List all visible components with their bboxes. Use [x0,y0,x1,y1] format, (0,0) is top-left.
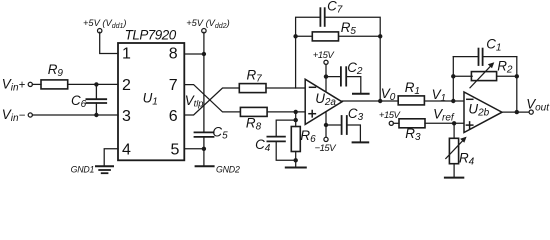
svg-text:6: 6 [169,108,178,125]
node pin5/C5 junction [202,147,206,151]
node R2 left [451,74,455,78]
R4 arrow [446,139,465,159]
terminal +15V (R3) [389,121,393,125]
capacitor C4 [267,136,285,138]
resistor R1 [398,96,424,105]
wire pin 6 crossing up to R7 [184,88,239,115]
wire U2a output to R1 [342,100,398,102]
svg-text:+15V: +15V [313,50,336,61]
wire R8 to U2a non-inverting input [267,111,305,113]
node pin8/Vdd2 junction [202,52,206,56]
IC U1 TLP7920 body [118,43,184,160]
wire noninv node down to R6 [295,112,297,127]
capacitor C7 [319,8,321,26]
resistor R2 (variable) [453,75,472,77]
capacitor C2 [326,76,341,78]
svg-text:GND2: GND2 [216,165,240,175]
terminal -15V (U2a) [324,137,328,141]
terminal +15V (U2a) [324,60,328,64]
node C6 top [94,82,98,86]
resistor R3 [399,119,425,128]
node R2 right [515,74,519,78]
node C3 tee [324,123,328,127]
ground GND2 [196,165,214,167]
capacitor C6 [95,84,97,99]
wire pin 8 [184,53,204,55]
capacitor C3 [326,124,342,126]
svg-text:+15V: +15V [379,110,402,121]
terminal Vin- [28,113,32,117]
node V0 [378,99,382,103]
resistor R5 [296,35,312,37]
ground C3 [353,141,369,143]
wire R9 to pin 2 [68,83,118,85]
wire R4 to ground [453,164,455,178]
wire C1 top branch [453,56,478,58]
U2b plus sign [466,124,472,126]
resistor R9 [41,80,68,89]
wire Vin- to pin 3 [32,114,118,116]
svg-text:4: 4 [122,142,131,159]
node R5 left [293,34,297,38]
wire Vdd1 to pin 1 [100,32,118,53]
node C6 bottom [94,113,98,117]
wire Vref node down to R4 [453,123,455,138]
terminal Vout [529,110,533,114]
node R5 right [378,34,382,38]
wire C1/R2 left leg [452,57,454,101]
node C2 tee [324,74,328,78]
svg-text:1: 1 [122,45,131,62]
node C4 tee [294,118,298,122]
wire C4 bottom [276,141,296,160]
wire feedback left leg [296,17,321,88]
wire C7 right to right leg [325,17,381,101]
wire Vin+ to R9 [32,83,41,85]
U2a plus sign [309,113,315,115]
node V1 [451,99,455,103]
svg-text:GND1: GND1 [71,165,95,175]
wire R7 to U2a inverting input [266,87,305,89]
resistor R8 [240,107,267,116]
wire C4 branch [276,120,296,137]
op-amp U2b [464,92,502,133]
svg-text:−15V: −15V [315,143,338,154]
U2b minus sign [467,98,473,100]
resistor R6 [291,127,300,152]
capacitor C1 [478,49,480,65]
svg-text:7: 7 [169,77,178,94]
wire pin 4 to GND1 [104,149,118,166]
node Vref/R4 [452,121,456,125]
svg-text:5: 5 [171,142,180,159]
op-amp U2a [305,79,342,124]
svg-text:3: 3 [122,108,131,125]
wire Vdd2 down to pin 8 node [203,32,205,54]
ground R4 [445,177,463,179]
terminal +5V (Vdd1) [98,29,102,33]
ground R6/C4 [286,167,306,169]
wire -15V from U2a bottom [325,112,327,138]
wire pin 7 crossing down to R8 [184,85,240,112]
svg-text:TLP7920: TLP7920 [125,28,177,43]
wire +15V down to U2a [325,64,327,91]
wire +15V to R3 [393,122,399,124]
svg-text:2: 2 [122,77,131,94]
wire R1 to U2b inverting input [424,100,464,102]
ground GND1 [96,165,113,167]
node Vout [515,110,519,114]
terminal Vin+ [28,82,32,86]
resistor R4 (variable) [449,138,458,163]
node R8/R6 junction [294,110,298,114]
ground C2 [353,93,369,95]
node R6/C4 ground junction [294,158,298,162]
wire R3 to U2b non-inverting input [425,122,464,124]
wire U2b output [502,111,529,113]
resistor R7 [239,84,266,93]
capacitor C5 [203,54,205,132]
terminal +5V (Vdd2) [202,29,206,33]
wire C1/R2 right leg [516,57,518,113]
wire R6 bottom [295,152,297,168]
wire pin 5 to GND2 [184,148,204,150]
U2a minus sign [310,86,316,88]
svg-text:8: 8 [169,45,178,62]
R2 arrow [470,64,493,88]
